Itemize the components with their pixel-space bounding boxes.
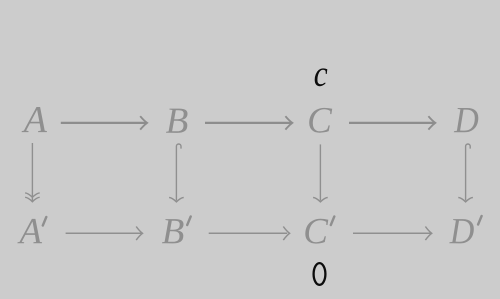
node A' [17,219,42,243]
prime of D' [478,216,482,225]
arrow D to D' (hook mono) [458,144,473,202]
label c [315,68,328,86]
node A [22,107,47,132]
node B' [162,219,184,243]
arrow A to A' (two-headed epi) [25,143,40,202]
label 0 [314,263,326,285]
node D' [449,219,474,243]
node C' [305,219,328,244]
node D [454,108,479,132]
arrow C' to D' [353,227,432,241]
prime of C' [331,217,335,226]
prime of A' [43,217,47,226]
arrow C to D [349,116,435,129]
arrow A to B [61,116,147,129]
arrow C to C' [313,144,328,202]
arrow A' to B' [66,227,143,241]
arrow B to C [205,116,292,129]
node C [309,108,332,133]
arrow B' to C' [209,227,290,241]
arrow B to B' (hook mono) [169,144,184,202]
prime of B' [187,217,191,226]
node B [166,109,188,133]
